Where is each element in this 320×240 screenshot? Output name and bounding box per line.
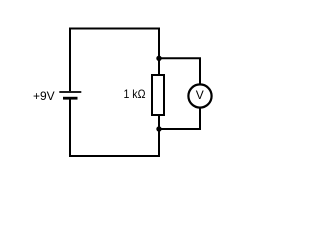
resistor R1 body [152, 75, 164, 115]
wire: left vertical bottom + bottom horizontal + vertical up to resistor bottom [70, 99, 159, 156]
junction node lower [156, 126, 161, 131]
wire: left vertical top + top horizontal + right vertical down to resistor [70, 29, 159, 92]
wire: voltmeter bottom to lower node [159, 108, 200, 129]
svg-text:+9V: +9V [33, 89, 55, 103]
svg-text:1 kΩ: 1 kΩ [124, 87, 146, 101]
svg-text:V: V [196, 88, 204, 102]
junction node upper [156, 56, 161, 61]
battery B1 +9V: long positive plate [59, 91, 81, 93]
voltmeter U1 circle [188, 84, 211, 107]
battery B1 +9V: short negative plate [63, 97, 78, 100]
wire: upper node to voltmeter top [159, 58, 200, 84]
